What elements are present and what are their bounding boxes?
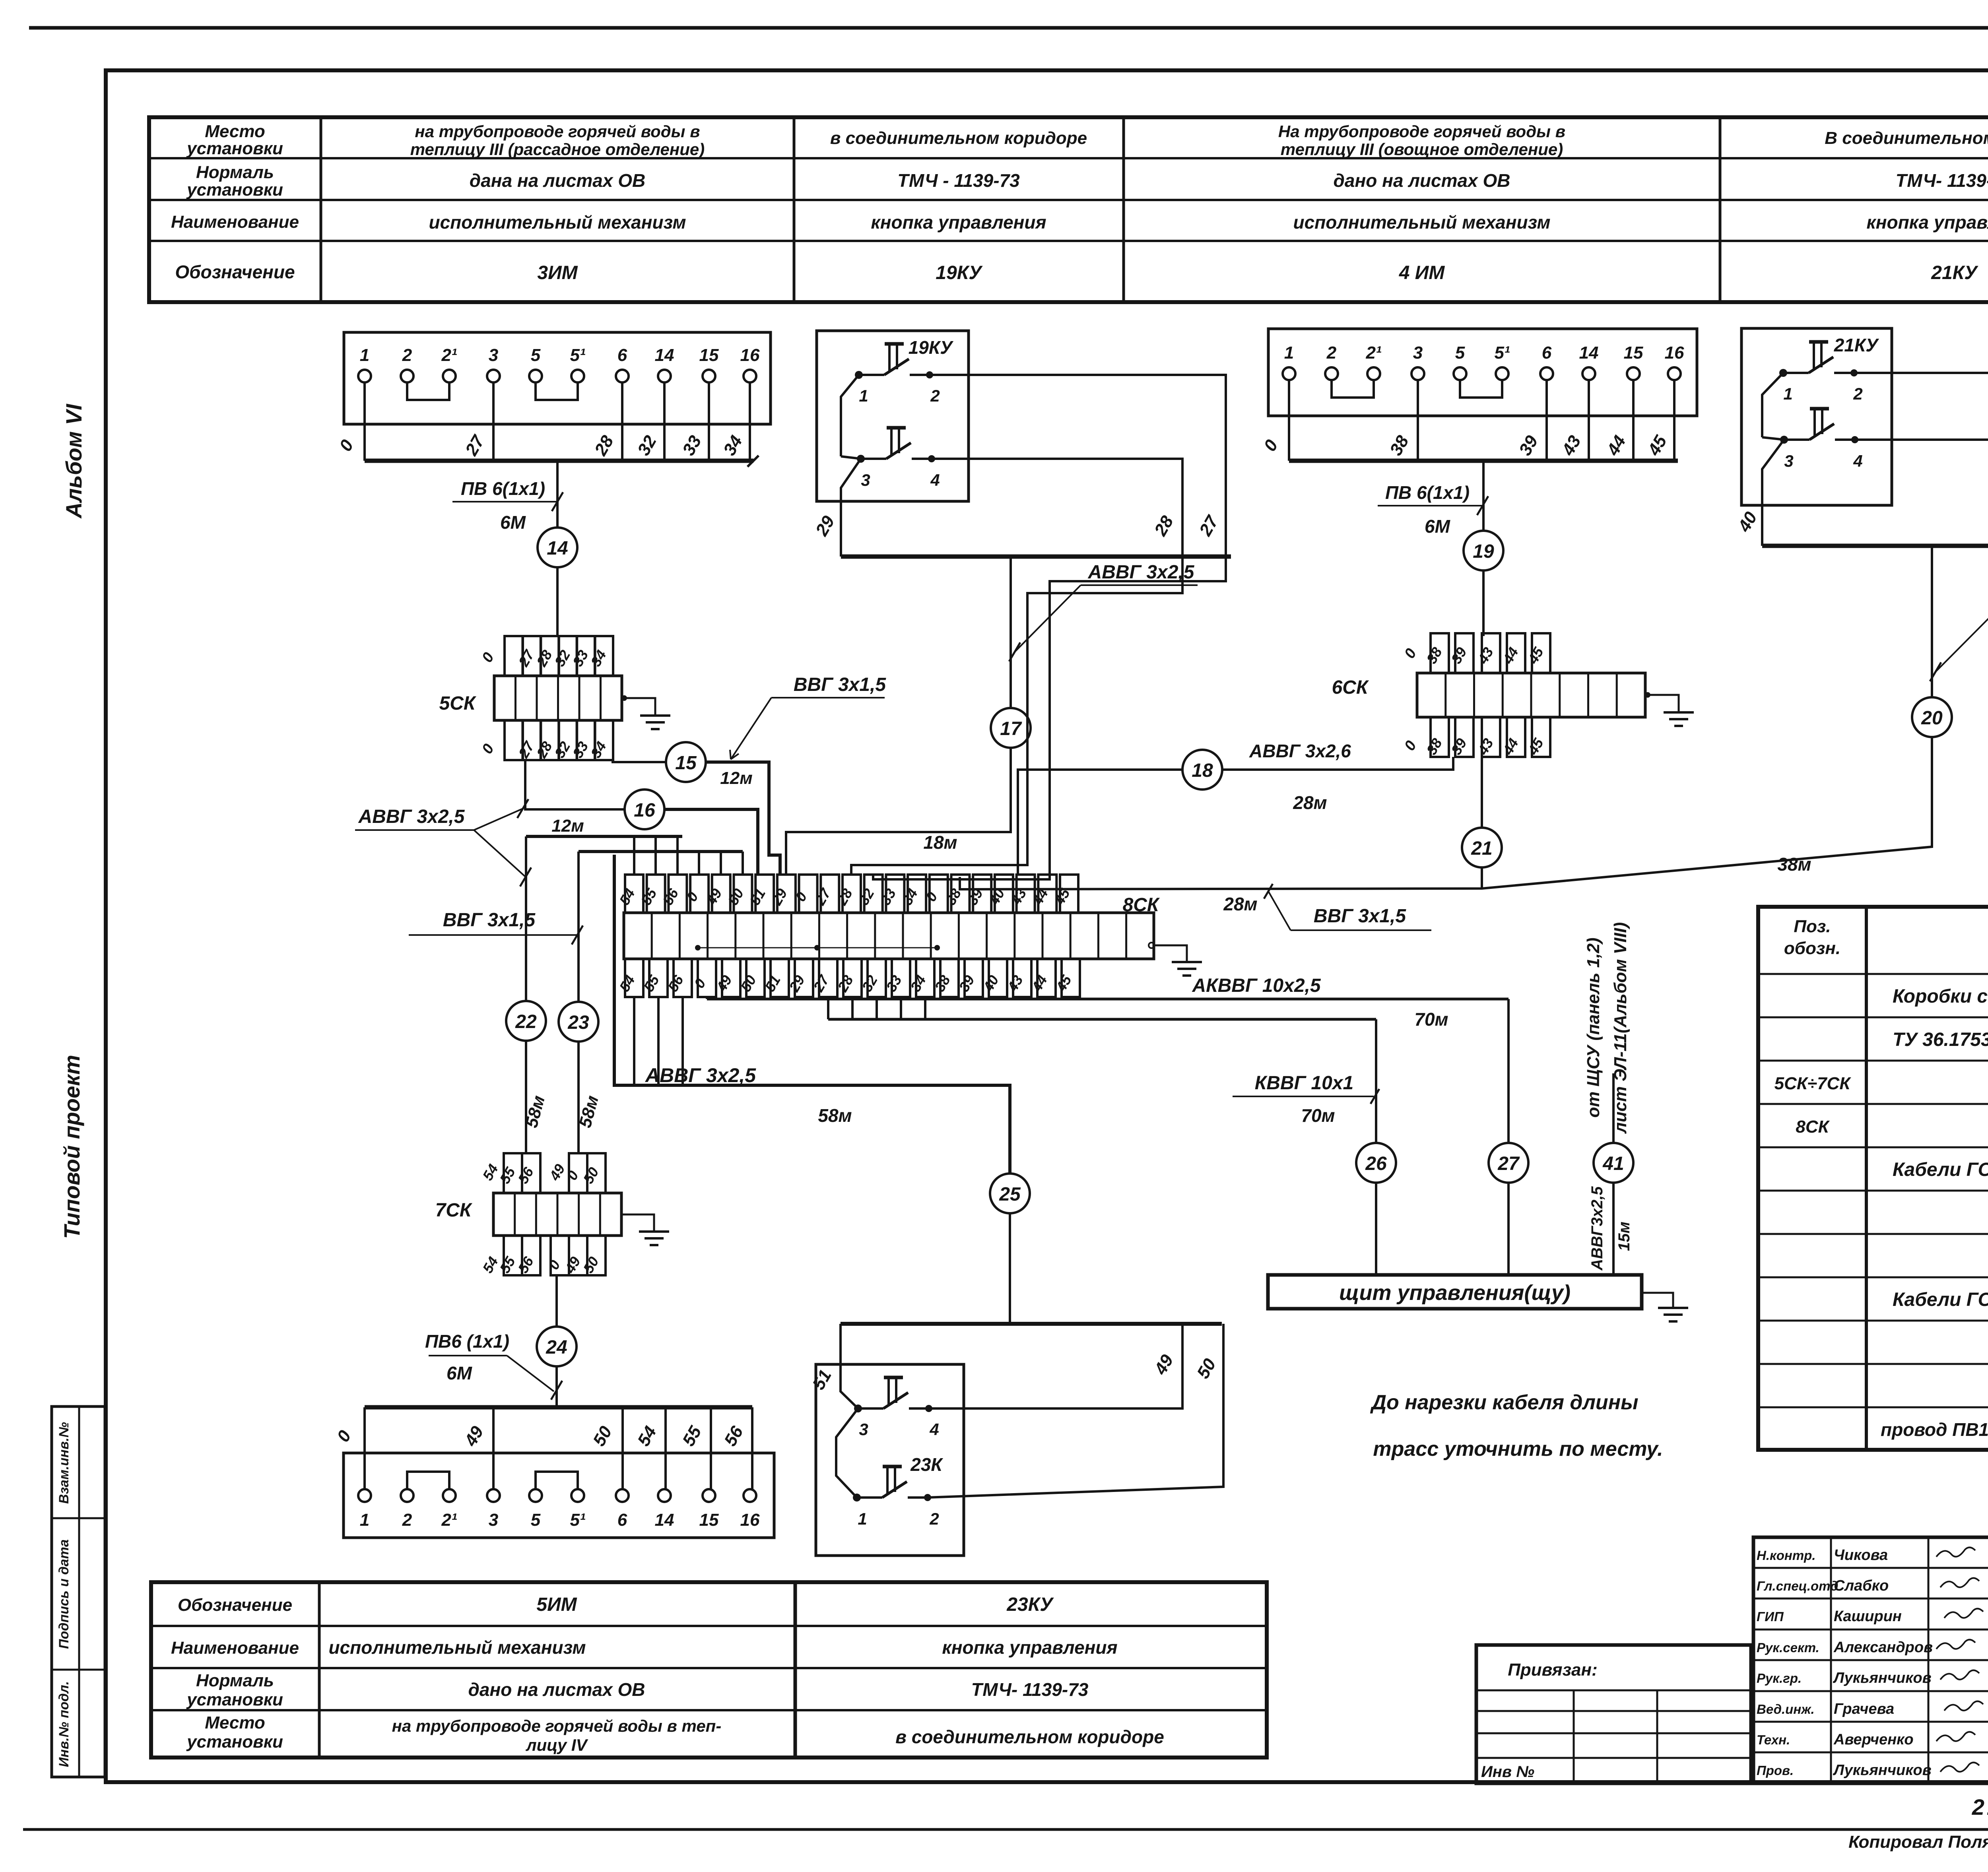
АВВГ 3х2,5 58м loop	[614, 855, 1010, 1174]
wire circle 14 to 5СК	[556, 567, 559, 636]
svg-text:5¹: 5¹	[570, 345, 585, 365]
wire 7СК to circle 24	[555, 1275, 558, 1327]
svg-text:4: 4	[930, 471, 940, 489]
svg-text:Место: Место	[205, 1713, 265, 1732]
svg-text:6: 6	[617, 1510, 627, 1530]
bus under 19КУ	[841, 555, 1231, 559]
svg-text:провод ПВ1 1380/660ГОСТ 6323-: провод ПВ1 1380/660ГОСТ 6323-79	[1881, 1419, 1988, 1440]
svg-text:15м: 15м	[1615, 1222, 1633, 1251]
привязан table	[1476, 1645, 1751, 1783]
svg-text:21КУ: 21КУ	[1931, 262, 1978, 283]
svg-text:19КУ: 19КУ	[909, 337, 954, 358]
wire 27 from contact 2 (19КУ)	[929, 375, 1226, 557]
cable circle 25	[990, 1174, 1030, 1213]
svg-text:70м: 70м	[1414, 1009, 1448, 1030]
wire numbers on 4ИМ bus	[1260, 432, 1671, 459]
cable circle 19	[1464, 531, 1503, 570]
svg-text:16: 16	[634, 800, 655, 821]
svg-text:14: 14	[655, 1510, 674, 1530]
svg-text:12м: 12м	[720, 768, 753, 788]
svg-text:3ИМ: 3ИМ	[537, 262, 578, 283]
bottom table cells 23КУ column	[895, 1594, 1164, 1747]
note text line 1	[1370, 1391, 1638, 1414]
wires 4ИМ terminals to bus	[1289, 380, 1674, 461]
svg-text:14: 14	[655, 345, 674, 365]
svg-text:38м: 38м	[1777, 854, 1811, 875]
svg-text:2: 2	[1326, 343, 1337, 363]
wires 8СК stubs to КВВГ bus	[828, 997, 925, 1019]
svg-text:2: 2	[929, 1509, 939, 1528]
cable label АВВГ 3х2,5 left	[355, 799, 531, 887]
svg-text:2: 2	[402, 345, 412, 365]
cable circle 17	[991, 708, 1031, 748]
svg-text:21: 21	[1471, 838, 1492, 859]
wire circle 16 to 8СК	[664, 809, 758, 875]
svg-text:23КУ: 23КУ	[1006, 1594, 1054, 1615]
terminal block 4ИМ box	[1268, 329, 1697, 416]
КВВГ 10х1 bus	[828, 1018, 1376, 1021]
svg-text:АВВГ3х2,5: АВВГ3х2,5	[1588, 1186, 1606, 1271]
svg-text:Обозначение: Обозначение	[175, 262, 295, 282]
terminal block 5ИМ box	[344, 1453, 774, 1538]
svg-text:16: 16	[740, 1510, 760, 1530]
svg-text:2: 2	[402, 1510, 412, 1530]
bottom table row labels	[171, 1595, 299, 1752]
wire bus to circle 14	[556, 461, 559, 528]
svg-text:15: 15	[699, 1510, 719, 1530]
svg-text:23: 23	[567, 1012, 589, 1033]
svg-text:в соединительном коридоре: в соединительном коридоре	[895, 1727, 1164, 1747]
svg-text:До нарезки кабеля длины: До нарезки кабеля длины	[1370, 1391, 1638, 1414]
cable circle 23	[559, 1002, 598, 1042]
svg-text:АВВГ 3х2,5: АВВГ 3х2,5	[1088, 562, 1195, 583]
wire 27 from 19КУ to 8СК	[873, 557, 1226, 879]
svg-text:дано на листах ОВ: дано на листах ОВ	[468, 1679, 645, 1700]
wire 28 from contact 4 (19КУ)	[931, 459, 1182, 557]
push contact 1-2 (19КУ)	[855, 344, 940, 405]
svg-text:Кабели ГОСТ 16442-80: Кабели ГОСТ 16442-80	[1893, 1159, 1988, 1180]
top table cells: норма row	[470, 170, 1988, 191]
svg-text:обозн.: обозн.	[1784, 939, 1840, 958]
svg-text:установки: установки	[186, 180, 283, 200]
wire 39 from contact 4 (21КУ)	[1854, 440, 1988, 546]
parts table header	[1784, 917, 1988, 958]
svg-text:Гл.спец.отд: Гл.спец.отд	[1757, 1579, 1839, 1593]
label 28м and ВВГ3х1,5 leader	[1223, 884, 1431, 930]
vertical margin text Альбом VI	[61, 403, 86, 519]
jumper 5-5prime (5ИМ)	[536, 1472, 578, 1489]
svg-text:70м: 70м	[1301, 1105, 1335, 1126]
svg-text:2: 2	[1853, 384, 1862, 403]
wire 23 vertical	[577, 852, 580, 1002]
push button box 23К	[816, 1364, 964, 1556]
top table cells: наименование row	[429, 212, 1988, 233]
svg-text:18: 18	[1192, 760, 1213, 781]
svg-text:ВВГ 3х1,5: ВВГ 3х1,5	[794, 674, 887, 695]
push contact 1-2 (21КУ)	[1779, 342, 1863, 403]
jumper 2-2prime (5ИМ)	[407, 1472, 449, 1489]
ground at 5СК	[621, 695, 670, 729]
svg-text:5¹: 5¹	[1494, 343, 1510, 363]
wire 34-stub to circle 15	[613, 760, 666, 762]
wires 8СК stubs to АКВВГ bus	[707, 997, 804, 999]
svg-text:установки: установки	[186, 1690, 283, 1709]
labels 58м on wires 22 23	[522, 1094, 602, 1130]
wire numbers 40 39 38 (21КУ)	[1734, 508, 1988, 535]
svg-text:исполнительный механизм: исполнительный механизм	[1293, 212, 1550, 233]
wire circle 26 to ЩУ	[1375, 1183, 1377, 1275]
svg-text:2¹: 2¹	[441, 345, 457, 365]
svg-text:лист ЭЛ-11(Альбом VIII): лист ЭЛ-11(Альбом VIII)	[1611, 922, 1630, 1134]
bus under 3ИМ	[365, 456, 759, 467]
label 12м right	[720, 768, 753, 788]
svg-text:трасс уточнить по месту.: трасс уточнить по месту.	[1373, 1437, 1663, 1461]
wire numbers 29 28 27 (19КУ)	[812, 512, 1223, 539]
svg-text:кнопка управления: кнопка управления	[871, 212, 1046, 233]
terminal block 3ИМ terminals	[358, 345, 760, 382]
svg-text:14: 14	[1579, 343, 1599, 363]
jumper 5-5prime (3ИМ)	[536, 382, 578, 400]
svg-text:Нормаль: Нормаль	[196, 163, 274, 182]
svg-text:Наименование: Наименование	[171, 1638, 299, 1658]
svg-text:дана на листах ОВ: дана на листах ОВ	[470, 170, 645, 191]
wire 50 from contact 2 (23К)	[927, 1324, 1223, 1498]
terminal block 4ИМ terminals	[1283, 343, 1684, 380]
svg-text:18м: 18м	[923, 832, 957, 853]
svg-text:Инв.№ подл.: Инв.№ подл.	[56, 1681, 72, 1767]
cable label ВВГ 3х1,5 upper	[730, 674, 886, 759]
svg-text:Вед.инж.: Вед.инж.	[1757, 1702, 1815, 1717]
svg-text:Копировал Полякова: Копировал Полякова	[1848, 1832, 1988, 1852]
svg-text:28м: 28м	[1293, 792, 1327, 813]
svg-text:3: 3	[1784, 452, 1793, 470]
svg-text:3: 3	[489, 345, 498, 365]
svg-text:5: 5	[1455, 343, 1465, 363]
cable label АВВГ 3х2,5 (19КУ)	[1009, 562, 1198, 662]
svg-text:1: 1	[858, 1509, 867, 1528]
wire 5СК to 16 line	[525, 760, 625, 809]
ground at ЩУ	[1642, 1293, 1688, 1321]
svg-text:3: 3	[861, 471, 870, 489]
bus 22 to 8СК	[526, 836, 682, 875]
label 38м	[1777, 854, 1811, 875]
wires 8СК 54 55 56 stubs down to АВВГ loop	[634, 997, 683, 1085]
wire 49 from contact 4 (23К)	[928, 1324, 1182, 1408]
connector box 7СК	[435, 1153, 621, 1276]
ground at 7СК	[621, 1214, 669, 1245]
wires 3ИМ terminals to bus	[365, 382, 750, 461]
svg-text:21549-06 40: 21549-06 40	[1972, 1794, 1988, 1820]
svg-text:4: 4	[1853, 452, 1862, 470]
push contact 3-4 (21КУ)	[1780, 409, 1863, 470]
svg-text:6: 6	[617, 345, 627, 365]
svg-text:ТМЧ - 1139-73: ТМЧ - 1139-73	[897, 170, 1020, 191]
top table cell: place 4ИМ	[1278, 122, 1565, 159]
rotated label АВВГ3х2,5 15м	[1588, 1186, 1633, 1271]
cable circle 21	[1462, 828, 1502, 867]
svg-text:1: 1	[1783, 384, 1792, 403]
svg-text:15: 15	[1624, 343, 1643, 363]
8СК internal link line	[695, 945, 940, 951]
svg-text:на трубопроводе горячей воды: на трубопроводе горячей воды в теп-	[392, 1717, 722, 1735]
cable marker ПВ6 6М (3ИМ)	[452, 478, 563, 533]
svg-text:14: 14	[547, 538, 568, 559]
top table row labels	[171, 122, 299, 282]
cable circle 20	[1912, 697, 1952, 737]
svg-text:15: 15	[699, 345, 719, 365]
svg-text:3: 3	[489, 1510, 498, 1530]
wire circle 25 to 23К bus	[1009, 1213, 1011, 1324]
cable circle 41	[1594, 1143, 1633, 1183]
svg-text:6: 6	[1542, 343, 1552, 363]
wire circle 21 to 38м line	[1481, 867, 1483, 889]
wire circle 41 to ЩУ	[1612, 1183, 1615, 1275]
svg-text:Слабко: Слабко	[1834, 1577, 1889, 1594]
push button box 21КУ	[1741, 328, 1892, 505]
svg-text:2¹: 2¹	[441, 1510, 457, 1530]
svg-text:5: 5	[531, 1510, 541, 1530]
svg-text:19КУ: 19КУ	[936, 262, 983, 283]
bottom equipment table	[151, 1582, 1267, 1758]
svg-text:Взам.инв.№: Взам.инв.№	[56, 1422, 72, 1504]
svg-text:20: 20	[1921, 708, 1943, 729]
label КВВГ 10х1 70м	[1233, 1073, 1379, 1126]
svg-text:Кабели ГОСТ 1508-78: Кабели ГОСТ 1508-78	[1893, 1289, 1988, 1310]
svg-text:на трубопроводе горячей воды: на трубопроводе горячей воды в	[415, 122, 700, 141]
копировал line	[1848, 1832, 1988, 1852]
rotated label от ЩСУ	[1584, 922, 1630, 1134]
top table cells: обозначение row	[537, 262, 1978, 283]
АКВВГ 10х2,5 bus	[707, 998, 1508, 1001]
svg-text:АВВГ 3х2,6: АВВГ 3х2,6	[1249, 741, 1351, 761]
svg-text:Рук.гр.: Рук.гр.	[1757, 1671, 1802, 1686]
sheet top border line	[29, 26, 1988, 30]
wire 6СК to circle 21	[1481, 757, 1483, 828]
svg-text:Наименование: Наименование	[171, 212, 299, 232]
connector box 6СК	[1332, 633, 1645, 758]
svg-text:АВВГ 3х2,5: АВВГ 3х2,5	[645, 1064, 756, 1086]
wire 51 into 23К	[809, 1324, 858, 1408]
svg-text:23К: 23К	[910, 1454, 943, 1475]
svg-text:Подпись и дата: Подпись и дата	[56, 1539, 72, 1649]
bus above 5ИМ	[365, 1405, 752, 1410]
doc number bottom	[1972, 1794, 1988, 1820]
svg-text:6М: 6М	[447, 1363, 473, 1383]
svg-text:лицу IV: лицу IV	[525, 1736, 588, 1754]
svg-text:8СК: 8СК	[1796, 1117, 1830, 1137]
bus under 4ИМ	[1289, 459, 1678, 463]
svg-text:5ИМ: 5ИМ	[536, 1594, 577, 1615]
svg-text:теплицу III (рассадное отделен: теплицу III (рассадное отделение)	[410, 140, 705, 159]
wire 23 to 7СК	[577, 1042, 580, 1153]
wire 17 vertical into 8СК	[786, 748, 1011, 875]
svg-text:АВВГ 3х2,5: АВВГ 3х2,5	[358, 806, 465, 827]
cable label ВВГ 3х1,5 lower left	[409, 910, 583, 945]
cable circle 14	[538, 528, 577, 567]
wire 29 left link (19КУ)	[841, 375, 861, 557]
svg-text:от ЩСУ (панель 1,2): от ЩСУ (панель 1,2)	[1584, 938, 1603, 1118]
parts table rows	[1774, 986, 1988, 1443]
svg-text:17: 17	[1000, 718, 1022, 739]
svg-text:Н.контр.: Н.контр.	[1757, 1548, 1815, 1563]
svg-text:Поз.: Поз.	[1794, 917, 1831, 936]
svg-text:16: 16	[1665, 343, 1684, 363]
cable circle 16	[625, 790, 664, 829]
wire 22 to 7СК	[525, 1041, 527, 1153]
terminal block 5ИМ terminals	[358, 1489, 760, 1530]
svg-text:Нормаль: Нормаль	[196, 1671, 274, 1690]
wire bus to circle 19	[1482, 461, 1485, 531]
label 18м	[923, 832, 957, 853]
svg-text:1: 1	[1284, 343, 1294, 363]
wire circle 19 to 6СК	[1482, 570, 1485, 636]
svg-text:ТМЧ- 1139-73: ТМЧ- 1139-73	[1896, 170, 1988, 191]
svg-text:теплицу III (овощное отделени: теплицу III (овощное отделение)	[1281, 140, 1563, 159]
svg-text:Александров: Александров	[1833, 1639, 1933, 1656]
wire circle 24 to 5ИМ bus	[551, 1366, 562, 1407]
svg-text:12м: 12м	[551, 816, 584, 836]
link contact 3 to contact 1 (23К)	[836, 1408, 858, 1498]
connector box 8СК body	[624, 894, 1160, 959]
svg-text:15: 15	[675, 753, 697, 774]
wire numbers on 5ИМ bus	[333, 1423, 747, 1450]
ground at 8СК	[1149, 943, 1202, 976]
label АВВГ 3х2,6 28м	[1249, 741, 1351, 813]
terminal block 3ИМ box	[344, 332, 771, 424]
svg-text:1: 1	[360, 345, 369, 365]
svg-text:кнопка управления: кнопка управления	[1866, 212, 1988, 233]
push contact 1-2 (23К)	[853, 1454, 943, 1528]
push contact 3-4 (19КУ)	[857, 428, 940, 489]
bus 23 to 8СК	[579, 852, 743, 875]
svg-text:5СК÷7СК: 5СК÷7СК	[1774, 1074, 1852, 1093]
svg-text:Привязан:: Привязан:	[1508, 1660, 1597, 1680]
wire circle 18 to 8СК	[1018, 770, 1182, 875]
cable circle 18	[1182, 750, 1222, 790]
push button box 19КУ	[817, 331, 969, 501]
cable marker ПВ6 6М (4ИМ)	[1378, 482, 1488, 537]
svg-text:7СК: 7СК	[435, 1200, 473, 1221]
svg-text:ПВ6 (1х1): ПВ6 (1х1)	[425, 1331, 509, 1352]
8СК top terminal stubs	[616, 875, 1078, 913]
svg-text:ТМЧ- 1139-73: ТМЧ- 1139-73	[971, 1679, 1089, 1700]
wire 22 vertical	[525, 836, 527, 1001]
push contact 3-4 (23К)	[854, 1377, 939, 1439]
svg-text:Инв №: Инв №	[1481, 1763, 1534, 1781]
svg-text:В соединительном коридоре: В соединительном коридоре	[1825, 128, 1988, 148]
svg-text:3: 3	[1413, 343, 1423, 363]
note text line 2	[1373, 1437, 1663, 1461]
svg-text:щит управления(щу): щит управления(щу)	[1339, 1281, 1571, 1305]
wires bus to 5ИМ terminals	[365, 1407, 752, 1489]
vertical margin text Типовой проект	[59, 1055, 84, 1239]
svg-text:Чикова: Чикова	[1834, 1547, 1888, 1564]
svg-text:Рук.сект.: Рук.сект.	[1757, 1640, 1819, 1655]
svg-text:ТУ 36.1753-75: ТУ 36.1753-75	[1893, 1029, 1988, 1050]
control panel box ЩУ	[1268, 1275, 1642, 1309]
svg-text:Обозначение: Обозначение	[178, 1595, 292, 1615]
svg-text:3: 3	[859, 1420, 868, 1439]
svg-text:Место: Место	[205, 122, 265, 141]
cable marker ПВ6 6М (5ИМ)	[425, 1331, 554, 1391]
svg-text:Грачева: Грачева	[1834, 1701, 1894, 1717]
svg-text:21КУ: 21КУ	[1834, 335, 1879, 355]
wire bus 19КУ to circle 17	[1010, 557, 1012, 708]
svg-text:в соединительном коридоре: в соединительном коридоре	[830, 128, 1087, 148]
cable circle 26	[1356, 1143, 1396, 1183]
svg-text:58м: 58м	[818, 1105, 852, 1126]
top table cell: place 19КУ	[830, 128, 1087, 148]
wire АКВВГ bus to circle 27	[1507, 999, 1510, 1143]
jumper 5-5prime (4ИМ)	[1460, 380, 1502, 398]
top table cell: place 3ИМ	[410, 122, 705, 159]
wire 6СК to circle 18 line	[1222, 757, 1453, 770]
svg-text:25: 25	[999, 1184, 1021, 1205]
jumper 2-2prime (3ИМ)	[407, 382, 449, 400]
label АВВГ 3х2,5 58м loop	[645, 1064, 852, 1126]
svg-text:установки: установки	[186, 139, 283, 158]
wire from ЩСУ to circle 41	[1612, 1073, 1615, 1143]
svg-text:8СК: 8СК	[1123, 894, 1160, 916]
top equipment table	[149, 117, 1988, 302]
connector box 5СК	[439, 636, 622, 761]
svg-text:Аверченко: Аверченко	[1833, 1731, 1914, 1748]
svg-text:ВВГ 3х1,5: ВВГ 3х1,5	[443, 910, 536, 931]
svg-text:исполнительный механизм: исполнительный механизм	[429, 212, 686, 233]
svg-text:24: 24	[546, 1337, 567, 1358]
wire numbers on 3ИМ bus	[336, 431, 746, 459]
svg-text:Техн.: Техн.	[1757, 1732, 1790, 1747]
cable label АВВГ 3х2,5 (21КУ)	[1930, 584, 1988, 681]
svg-text:6М: 6М	[1425, 516, 1451, 537]
svg-text:1: 1	[859, 386, 868, 405]
top table cell: place 21КУ	[1825, 128, 1988, 148]
svg-text:Лукьянчиков: Лукьянчиков	[1833, 1762, 1932, 1779]
8СК bottom terminal stubs	[616, 959, 1080, 997]
svg-text:ГИП: ГИП	[1757, 1609, 1784, 1624]
svg-text:АКВВГ 10х2,5: АКВВГ 10х2,5	[1192, 975, 1321, 996]
svg-text:2: 2	[930, 386, 940, 405]
bottom table cells 5ИМ column	[328, 1594, 721, 1754]
svg-text:ПВ 6(1х1): ПВ 6(1х1)	[1385, 482, 1470, 503]
cable circle 22	[506, 1001, 546, 1041]
wire 38 from contact 2 (21КУ)	[1853, 373, 1988, 546]
svg-text:19: 19	[1473, 541, 1494, 562]
svg-text:4 ИМ: 4 ИМ	[1399, 262, 1445, 283]
svg-text:дано на листах ОВ: дано на листах ОВ	[1334, 170, 1510, 191]
svg-text:ПВ 6(1х1): ПВ 6(1х1)	[461, 478, 545, 499]
title block signatures	[1757, 1547, 1988, 1779]
cable circle 15	[666, 742, 706, 782]
svg-text:26: 26	[1365, 1153, 1387, 1174]
cable circle 27	[1489, 1143, 1528, 1183]
svg-text:16: 16	[740, 345, 760, 365]
svg-text:2¹: 2¹	[1365, 343, 1381, 363]
bus above 23К	[841, 1322, 1222, 1326]
wire circle 20 down to 38м line	[960, 737, 1932, 889]
svg-text:Типовой проект: Типовой проект	[59, 1055, 84, 1239]
label АКВВГ 10х2,5 70м	[1192, 975, 1448, 1030]
wire circle 15 to 8СК	[706, 762, 780, 875]
svg-text:5¹: 5¹	[570, 1510, 585, 1530]
left margin stamp boxes	[52, 1406, 105, 1777]
svg-text:22: 22	[515, 1011, 537, 1032]
svg-text:Каширин: Каширин	[1834, 1608, 1902, 1625]
parts list table	[1758, 907, 1988, 1450]
wire КВВГ bus to circle 26	[1375, 1019, 1377, 1143]
label 12м left	[551, 816, 584, 836]
cable circle 24	[537, 1327, 577, 1366]
